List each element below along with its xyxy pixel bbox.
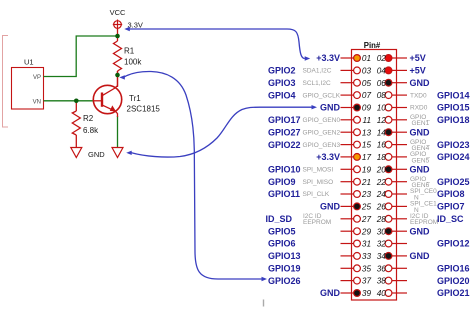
- svg-text:26: 26: [376, 203, 387, 212]
- svg-text:EEPROM: EEPROM: [410, 219, 438, 226]
- svg-text:R1: R1: [124, 47, 135, 56]
- svg-text:GPIO_GEN0: GPIO_GEN0: [303, 117, 341, 124]
- svg-text:GPIO9: GPIO9: [268, 177, 296, 187]
- svg-text:ID_SD: ID_SD: [266, 214, 293, 224]
- svg-text:19: 19: [362, 165, 372, 174]
- svg-text:GPIO24: GPIO24: [437, 152, 470, 162]
- svg-text:GND: GND: [88, 150, 105, 159]
- svg-text:05: 05: [362, 79, 372, 88]
- svg-text:GND: GND: [320, 103, 341, 113]
- svg-text:29: 29: [361, 227, 372, 236]
- svg-text:14: 14: [377, 128, 387, 137]
- svg-text:GND: GND: [320, 202, 341, 212]
- svg-text:09: 09: [362, 104, 372, 113]
- svg-text:+3.3V: +3.3V: [316, 53, 340, 63]
- svg-text:38: 38: [377, 277, 387, 286]
- svg-text:25: 25: [361, 203, 372, 212]
- svg-text:17: 17: [362, 153, 372, 162]
- svg-text:02: 02: [377, 54, 387, 63]
- svg-text:2SC1815: 2SC1815: [127, 105, 161, 114]
- svg-text:08: 08: [377, 91, 387, 100]
- svg-text:TXD0: TXD0: [410, 92, 427, 99]
- svg-text:Pin#: Pin#: [364, 41, 381, 50]
- svg-text:12: 12: [377, 116, 387, 125]
- svg-text:SPI_CLK: SPI_CLK: [303, 191, 330, 198]
- svg-text:GPIO22: GPIO22: [268, 140, 301, 150]
- svg-text:13: 13: [362, 128, 372, 137]
- svg-text:22: 22: [376, 178, 387, 187]
- svg-text:GPIO17: GPIO17: [268, 115, 301, 125]
- svg-text:VCC: VCC: [110, 8, 126, 17]
- svg-text:06: 06: [377, 79, 387, 88]
- svg-text:GPIO7: GPIO7: [437, 202, 465, 212]
- svg-text:10: 10: [377, 104, 387, 113]
- svg-text:SDA1,I2C: SDA1,I2C: [303, 68, 332, 75]
- svg-text:GPIO16: GPIO16: [437, 264, 470, 274]
- svg-text:GPIO26: GPIO26: [268, 276, 301, 286]
- svg-text:GEN5: GEN5: [412, 157, 430, 164]
- svg-text:6.8k: 6.8k: [83, 126, 99, 135]
- svg-text:GPIO2: GPIO2: [268, 66, 296, 76]
- svg-text:23: 23: [361, 190, 372, 199]
- svg-text:GPIO12: GPIO12: [437, 239, 470, 249]
- svg-text:16: 16: [377, 141, 387, 150]
- svg-text:GND: GND: [320, 288, 341, 298]
- svg-text:GND: GND: [410, 226, 431, 236]
- svg-text:01: 01: [362, 54, 371, 63]
- svg-text:U1: U1: [24, 58, 34, 67]
- svg-text:GPIO_GEN2: GPIO_GEN2: [303, 129, 341, 136]
- svg-text:GND: GND: [410, 251, 431, 261]
- svg-text:GND: GND: [410, 165, 431, 175]
- svg-text:R2: R2: [83, 114, 94, 123]
- svg-text:GPIO5: GPIO5: [268, 226, 296, 236]
- svg-text:Tr1: Tr1: [129, 94, 141, 103]
- svg-text:GPIO3: GPIO3: [268, 78, 296, 88]
- svg-text:GPIO10: GPIO10: [268, 165, 301, 175]
- svg-text:VN: VN: [33, 99, 41, 105]
- svg-text:37: 37: [362, 277, 372, 286]
- svg-text:34: 34: [377, 252, 387, 261]
- svg-text:100k: 100k: [124, 58, 142, 67]
- svg-text:GPIO15: GPIO15: [437, 103, 470, 113]
- svg-text:GPIO18: GPIO18: [437, 115, 470, 125]
- svg-text:SPI_MOSI: SPI_MOSI: [303, 167, 334, 174]
- svg-text:GEN1: GEN1: [412, 120, 430, 127]
- svg-text:32: 32: [377, 240, 387, 249]
- svg-text:GPIO6: GPIO6: [268, 239, 296, 249]
- svg-text:SPI_MISO: SPI_MISO: [303, 179, 334, 186]
- svg-text:GND: GND: [410, 78, 431, 88]
- svg-text:GPIO4: GPIO4: [268, 90, 296, 100]
- svg-text:33: 33: [362, 252, 372, 261]
- svg-text:07: 07: [362, 91, 372, 100]
- svg-text:15: 15: [362, 141, 372, 150]
- svg-text:+5V: +5V: [410, 66, 426, 76]
- svg-text:RXD0: RXD0: [410, 105, 428, 112]
- svg-text:GPIO14: GPIO14: [437, 90, 470, 100]
- svg-text:31: 31: [362, 240, 371, 249]
- svg-text:GPIO11: GPIO11: [268, 189, 300, 199]
- svg-text:GPIO_GCLK: GPIO_GCLK: [303, 92, 341, 99]
- svg-text:21: 21: [361, 178, 371, 187]
- svg-text:GPIO20: GPIO20: [437, 276, 470, 286]
- svg-text:VP: VP: [33, 75, 41, 81]
- svg-text:40: 40: [377, 289, 387, 298]
- svg-text:30: 30: [377, 227, 387, 236]
- svg-text:GPIO19: GPIO19: [268, 264, 301, 274]
- svg-text:GPIO21: GPIO21: [437, 288, 470, 298]
- svg-text:28: 28: [376, 215, 387, 224]
- svg-text:18: 18: [377, 153, 387, 162]
- svg-text:GPIO8: GPIO8: [437, 189, 465, 199]
- svg-text:24: 24: [376, 190, 387, 199]
- svg-text:36: 36: [377, 264, 387, 273]
- svg-text:GPIO25: GPIO25: [437, 177, 470, 187]
- svg-text:EEPROM: EEPROM: [303, 219, 331, 226]
- svg-text:03: 03: [362, 67, 372, 76]
- svg-text:20: 20: [376, 165, 387, 174]
- svg-text:GND: GND: [410, 127, 431, 137]
- svg-text:GPIO13: GPIO13: [268, 251, 301, 261]
- svg-text:GPIO23: GPIO23: [437, 140, 470, 150]
- svg-text:SCL1,I2C: SCL1,I2C: [303, 80, 331, 87]
- svg-text:ID_SC: ID_SC: [437, 214, 464, 224]
- svg-text:39: 39: [362, 289, 372, 298]
- svg-text:27: 27: [361, 215, 372, 224]
- svg-text:3.3V: 3.3V: [128, 21, 143, 30]
- svg-text:+3.3V: +3.3V: [316, 152, 340, 162]
- svg-text:GPIO_GEN3: GPIO_GEN3: [303, 142, 341, 149]
- svg-text:35: 35: [362, 264, 372, 273]
- svg-text:+5V: +5V: [410, 53, 426, 63]
- svg-text:11: 11: [363, 116, 372, 125]
- svg-text:GPIO27: GPIO27: [268, 127, 301, 137]
- svg-text:04: 04: [377, 67, 387, 76]
